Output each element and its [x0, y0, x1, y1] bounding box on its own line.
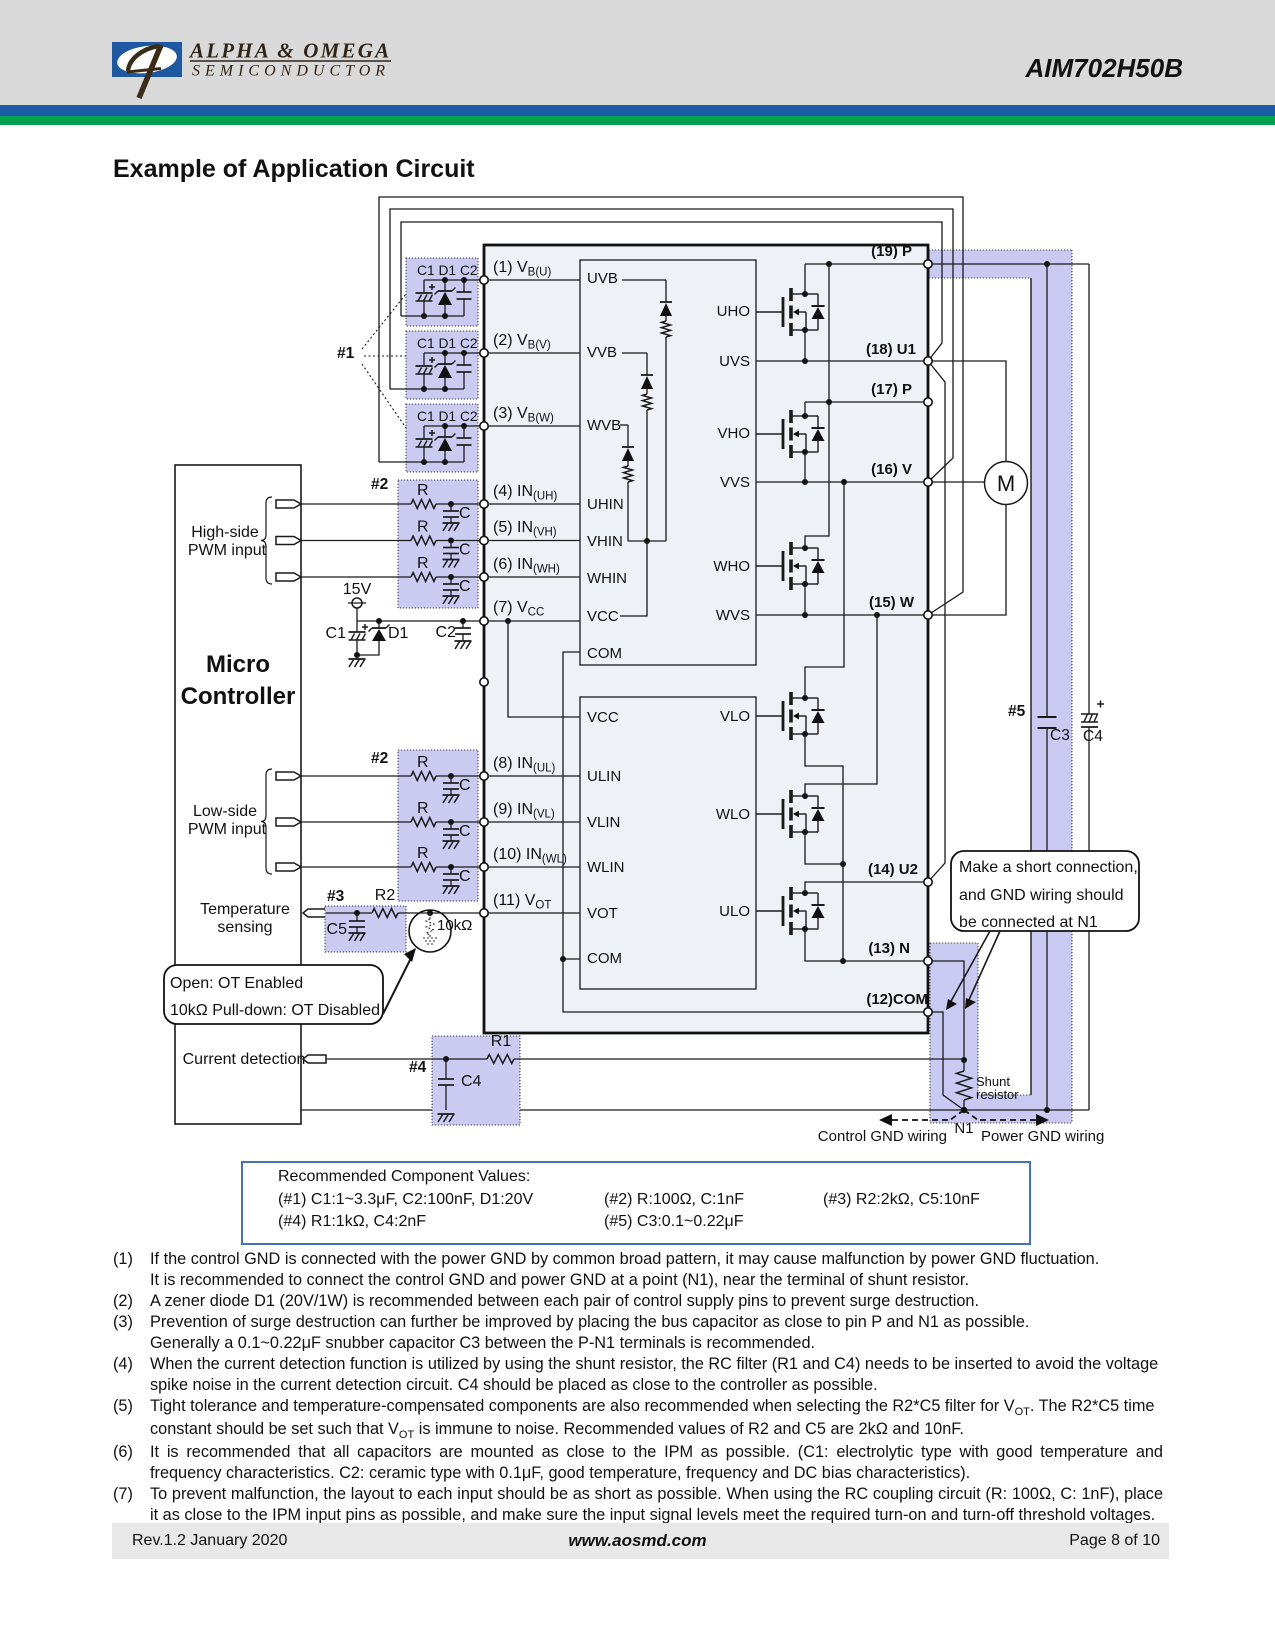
junctions (V) — [442, 350, 448, 356]
svg-text:R: R — [417, 800, 429, 817]
svg-text:VHO: VHO — [717, 425, 750, 442]
svg-text:WLO: WLO — [716, 806, 750, 823]
MOSFET W low-side (WLO) — [756, 790, 825, 838]
svg-text:resistor: resistor — [976, 1087, 1019, 1102]
footer — [112, 1523, 1169, 1559]
zener diode D1 (U) — [444, 280, 446, 291]
svg-text:UHO: UHO — [717, 303, 750, 320]
capacitor C2 (VCC decoupling) — [460, 618, 466, 624]
brace low-side inputs — [261, 769, 272, 874]
svg-text:UVB: UVB — [587, 270, 618, 287]
RC filter box #2 (high-side) — [398, 480, 478, 608]
N bus (low-side sources) — [805, 734, 843, 961]
svg-text:WHIN: WHIN — [587, 570, 627, 587]
capacitor C (IN(VH)) — [448, 538, 454, 544]
wire (18) U1 / UVS — [756, 360, 928, 362]
resistor R (IN(VH)) — [411, 536, 436, 545]
svg-text:#2: #2 — [371, 476, 388, 493]
svg-text:Current detection: Current detection — [183, 1051, 306, 1068]
ground (15V circuit) — [354, 652, 360, 658]
recommended component values box — [241, 1161, 1031, 1245]
RC filter box #2 (low-side) — [398, 750, 478, 901]
svg-text:R2: R2 — [375, 887, 396, 904]
IPM right pins — [924, 260, 932, 268]
svg-text:VLIN: VLIN — [587, 814, 620, 831]
svg-text:C: C — [459, 505, 471, 522]
svg-text:(19) P: (19) P — [871, 243, 912, 260]
COM stub low driver — [563, 958, 580, 960]
notes — [113, 1249, 1173, 1526]
svg-text:C1 D1 C2: C1 D1 C2 — [417, 409, 478, 424]
svg-text:#4: #4 — [409, 1059, 427, 1076]
internal bootstrap diode/resistor chain V — [622, 352, 647, 354]
wire VOT row — [326, 912, 372, 914]
wire (19) P — [804, 264, 806, 293]
svg-text:10kΩ Pull-down: OT Disabled: 10kΩ Pull-down: OT Disabled — [170, 1002, 380, 1019]
title — [113, 155, 475, 184]
svg-text:VCC: VCC — [587, 608, 619, 625]
W bus to W-low drain — [805, 615, 877, 796]
svg-text:(16) V: (16) V — [871, 461, 912, 478]
wire COM bus — [563, 652, 928, 1012]
capacitor C2 bootstrap (W) — [463, 426, 465, 438]
ground (IN(WL)) — [443, 885, 460, 887]
wire current detection — [326, 1058, 487, 1060]
wire input row IN(VL) — [301, 821, 411, 823]
wire (15) W / WVS — [756, 614, 928, 616]
svg-text:R: R — [417, 482, 429, 499]
PWM output connector y=577 — [276, 573, 301, 581]
wire bootstrap bottom (W) — [379, 461, 464, 463]
svg-text:R1: R1 — [491, 1033, 512, 1050]
resistor R1 — [487, 1055, 514, 1064]
MOSFET W high-side (WHO) — [756, 542, 825, 590]
svg-text:M: M — [997, 471, 1015, 496]
capacitor C5 — [354, 910, 360, 916]
svg-text:(18) U1: (18) U1 — [866, 341, 916, 358]
wire U1 to U2 link — [928, 361, 945, 882]
PWM output connector y=822 — [276, 818, 301, 826]
wire (13) N — [805, 929, 928, 961]
wire input row IN(WH) — [301, 576, 411, 578]
svg-text:VVB: VVB — [587, 344, 617, 361]
shunt resistor — [961, 1057, 967, 1063]
PWM output connector y=540.5 — [276, 537, 301, 545]
wire W to motor — [928, 504, 1006, 615]
svg-text:C3: C3 — [1050, 727, 1070, 744]
capacitor C1 (15V electrolytic) — [356, 621, 358, 632]
capacitor C1 bootstrap (V) — [423, 353, 425, 366]
svg-text:C4: C4 — [461, 1073, 482, 1090]
svg-text:Low-side: Low-side — [193, 803, 257, 820]
svg-text:Power GND wiring: Power GND wiring — [981, 1128, 1104, 1145]
svg-text:#2: #2 — [371, 750, 388, 767]
wire input row IN(UL) — [301, 775, 411, 777]
svg-text:C2: C2 — [436, 624, 457, 641]
svg-text:15V: 15V — [343, 581, 372, 598]
MOSFET U low-side (ULO) — [756, 887, 825, 935]
svg-text:ULIN: ULIN — [587, 768, 621, 785]
svg-text:C: C — [459, 578, 471, 595]
svg-text:PWM input: PWM input — [188, 821, 267, 838]
shunt / power GND broad pattern band — [930, 943, 1031, 1123]
Temperature sensing connector — [303, 909, 326, 917]
internal bootstrap diode/resistor chain U — [622, 279, 666, 281]
svg-text:sensing: sensing — [217, 919, 272, 936]
wire VB(V) top — [424, 352, 484, 354]
svg-text:C1: C1 — [326, 625, 347, 642]
svg-text:Controller: Controller — [181, 683, 296, 710]
svg-text:(14) U2: (14) U2 — [868, 861, 918, 878]
optional 10k pull-down resistor (dashed) — [427, 910, 433, 916]
AOS logo — [100, 30, 420, 110]
wire input row IN(VH) — [301, 540, 411, 542]
svg-text:(13) N: (13) N — [868, 940, 910, 957]
capacitor C (IN(UL)) — [448, 773, 454, 779]
svg-text:VHIN: VHIN — [587, 533, 623, 550]
svg-text:High-side: High-side — [191, 524, 259, 541]
zener diode D1 (W) — [444, 426, 446, 437]
MOSFET U high-side (UHO) — [756, 288, 825, 336]
svg-text:C1 D1 C2: C1 D1 C2 — [417, 263, 478, 278]
capacitor C2 bootstrap (V) — [463, 353, 465, 365]
svg-text:R: R — [417, 519, 429, 536]
svg-text:#5: #5 — [1008, 703, 1026, 720]
svg-text:WVB: WVB — [587, 417, 621, 434]
wire (17) P — [804, 402, 806, 415]
resistor R2 — [372, 909, 398, 918]
svg-text:Make a short connection,: Make a short connection, — [959, 859, 1138, 876]
MOSFET V low-side (VLO) — [756, 692, 825, 740]
svg-text:D1: D1 — [388, 625, 409, 642]
low-side gate driver IC box — [580, 697, 756, 989]
svg-text:Open: OT Enabled: Open: OT Enabled — [170, 975, 303, 992]
svg-text:C5: C5 — [327, 921, 348, 938]
bus capacitor C4 (electrolytic) — [1088, 264, 1090, 714]
svg-text:N1: N1 — [954, 1120, 973, 1137]
capacitor C (IN(UH)) — [448, 501, 454, 507]
P bus to W-high drain — [805, 402, 829, 547]
svg-text:VCC: VCC — [587, 709, 619, 726]
svg-text:VOT: VOT — [587, 905, 618, 922]
wire 15V to VCC pin — [356, 608, 358, 621]
resistor R (IN(VL)) — [411, 818, 436, 827]
band dotted borders — [929, 249, 1072, 251]
high-side gate driver IC box — [580, 260, 756, 665]
svg-text:C1 D1 C2: C1 D1 C2 — [417, 336, 478, 351]
wire bootstrap bottom (U) — [401, 315, 464, 317]
capacitor C2 bootstrap (U) — [463, 280, 465, 292]
svg-text:10kΩ: 10kΩ — [437, 917, 472, 934]
svg-text:(15) W: (15) W — [869, 594, 915, 611]
MOSFET V high-side (VHO) — [756, 410, 825, 458]
IPM module AIM702H50B body — [484, 245, 928, 1033]
svg-text:R: R — [417, 754, 429, 771]
svg-text:VVS: VVS — [720, 474, 750, 491]
junctions (W) — [442, 423, 448, 429]
wire V to motor — [928, 481, 985, 483]
IPM left pins — [480, 276, 488, 284]
svg-text:C4: C4 — [1083, 728, 1103, 745]
P bus vertical — [828, 264, 830, 402]
svg-text:WVS: WVS — [716, 607, 750, 624]
capacitor C1 bootstrap (W) — [423, 426, 425, 439]
wire VB(U) top — [424, 279, 484, 281]
ground (C5) — [349, 932, 366, 934]
ground (IN(WH)) — [443, 595, 460, 597]
svg-text:(17) P: (17) P — [871, 381, 912, 398]
svg-text:C: C — [459, 542, 471, 559]
option circle (10k pull-down) — [409, 910, 451, 952]
motor M — [985, 462, 1028, 505]
dashed GND wiring arrows at N1 — [890, 1110, 1037, 1120]
PWM output connector y=867 — [276, 863, 301, 871]
wire bootstrap bottom (V) — [390, 388, 464, 390]
ground (IN(UL)) — [443, 794, 460, 796]
arrows bubble to GND wires — [950, 931, 990, 1003]
callout bubble: Make a short connection — [951, 851, 1139, 931]
svg-text:R: R — [417, 555, 429, 572]
svg-text:C: C — [459, 868, 471, 885]
wire input row IN(WL) — [301, 866, 411, 868]
svg-text:C: C — [459, 823, 471, 840]
svg-text:#3: #3 — [327, 888, 345, 905]
wire COM pin to N1 — [928, 1012, 964, 1110]
svg-text:Control GND wiring: Control GND wiring — [818, 1128, 947, 1145]
svg-text:#1: #1 — [337, 345, 355, 362]
node N1 — [961, 1107, 967, 1113]
junctions (U) — [442, 277, 448, 283]
wire bootstrap loop V (VB(V) to V) — [390, 209, 953, 482]
wire bootstrap loop W (VB(W) to W) — [379, 197, 963, 615]
capacitor C (IN(WH)) — [448, 574, 454, 580]
bootstrap block V (purple box) — [406, 331, 478, 399]
capacitor C4 (filter) — [443, 1056, 449, 1062]
PWM output connector y=776 — [276, 772, 301, 780]
svg-text:Temperature: Temperature — [200, 901, 290, 918]
PWM output connector y=504 — [276, 500, 301, 508]
ground (IN(VH)) — [443, 559, 460, 561]
header band — [0, 0, 1275, 105]
svg-text:UVS: UVS — [719, 353, 750, 370]
ground (IN(UH)) — [443, 522, 460, 524]
capacitor C (IN(VL)) — [448, 819, 454, 825]
svg-text:ULO: ULO — [719, 903, 750, 920]
ground (IN(VL)) — [443, 840, 460, 842]
zener diode D1 (15V rail) — [376, 618, 382, 624]
wire N pin to shunt — [928, 961, 964, 1060]
ground (C4 filter) — [438, 1113, 455, 1115]
wire U1 to motor — [928, 361, 1006, 462]
brace high-side inputs — [261, 497, 272, 584]
ground (C2) — [455, 640, 472, 642]
svg-text:COM: COM — [587, 950, 622, 967]
Current detection connector — [303, 1055, 326, 1063]
Micro Controller box — [175, 465, 301, 1124]
zener diode D1 (V) — [444, 353, 446, 364]
RC filter box #4 — [432, 1036, 520, 1125]
wire VB(W) top — [424, 425, 484, 427]
svg-text:Micro: Micro — [206, 651, 270, 678]
arrow bubble to option circle — [383, 956, 412, 1014]
RC filter box #3 — [325, 906, 406, 952]
snubber capacitor C3 — [1046, 264, 1048, 717]
control GND wire — [301, 1109, 1089, 1111]
svg-text:R: R — [417, 845, 429, 862]
capacitor C (IN(WL)) — [448, 864, 454, 870]
wire bootstrap loop U (VB(U) to U1) — [401, 222, 942, 361]
capacitor C1 bootstrap (U) — [423, 280, 425, 293]
dotted pointer lines #1 — [362, 294, 406, 349]
internal VCC junction — [628, 540, 666, 542]
wire (14) U2 — [805, 882, 928, 893]
svg-text:WHO: WHO — [713, 558, 750, 575]
V bus to V-low drain — [805, 482, 844, 698]
wire VCC to low-side driver — [505, 618, 511, 624]
svg-text:C: C — [459, 777, 471, 794]
resistor R (IN(WL)) — [411, 863, 436, 872]
svg-text:(12)COM: (12)COM — [866, 991, 928, 1008]
bootstrap block W (purple box) — [406, 404, 478, 472]
resistor R (IN(UL)) — [411, 772, 436, 781]
callout bubble: Open OT Enabled — [164, 965, 383, 1024]
bootstrap block U (purple box) — [406, 258, 478, 326]
svg-text:COM: COM — [587, 645, 622, 662]
wires IPM pins to driver inputs — [484, 279, 580, 281]
svg-text:WLIN: WLIN — [587, 859, 625, 876]
15V supply terminal — [352, 598, 362, 608]
wire input row IN(UH) — [301, 503, 411, 505]
resistor R (IN(WH)) — [411, 573, 436, 582]
internal bootstrap diode/resistor chain W — [620, 424, 628, 426]
svg-text:VLO: VLO — [720, 708, 750, 725]
resistor R (IN(UH)) — [411, 500, 436, 509]
P-to-N1 power wiring broad pattern band — [929, 250, 1072, 1123]
wire (16) V / VVS — [756, 481, 928, 483]
svg-text:and GND wiring should: and GND wiring should — [959, 887, 1124, 904]
svg-text:PWM input: PWM input — [188, 542, 267, 559]
svg-text:be connected at N1: be connected at N1 — [959, 914, 1098, 931]
svg-text:UHIN: UHIN — [587, 496, 624, 513]
band inner edge line — [1030, 278, 1032, 1095]
